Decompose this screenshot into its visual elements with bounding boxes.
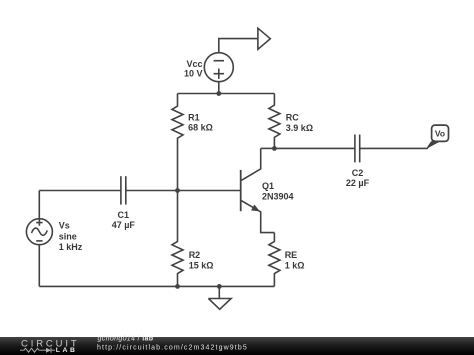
resistor RE	[269, 233, 280, 287]
svg-text:Vs: Vs	[59, 221, 70, 231]
transistor Q1 base bar	[240, 170, 242, 211]
svg-text:http://circuitlab.com/c2m342tg: http://circuitlab.com/c2m342tgw9tb5	[97, 345, 248, 352]
svg-text:68 kΩ: 68 kΩ	[188, 123, 213, 133]
svg-text:C1: C1	[118, 210, 130, 220]
junction node RC/collector/C2	[272, 146, 277, 151]
transistor Q1 emitter lead	[241, 201, 274, 233]
svg-text:sine: sine	[59, 231, 77, 241]
wire bottom rail	[39, 285, 274, 287]
junction node ground/bottom rail	[217, 284, 222, 289]
voltage source Vcc 10 V	[204, 53, 233, 82]
wire input rail left of C1	[39, 190, 121, 192]
net flag Vo box	[432, 125, 449, 141]
label R2 value	[189, 250, 214, 271]
svg-text:R1: R1	[188, 113, 200, 123]
svg-text:15 kΩ: 15 kΩ	[189, 261, 214, 271]
wire C1 to base	[126, 190, 241, 192]
svg-text:3.9 kΩ: 3.9 kΩ	[286, 123, 313, 133]
junction node R2/bottom rail	[175, 284, 180, 289]
transistor Q1 emitter arrow	[251, 205, 260, 212]
wire left column with Vs	[38, 191, 40, 287]
svg-text:RE: RE	[285, 250, 298, 260]
label Vs value	[59, 221, 83, 252]
wire top rail	[178, 93, 275, 95]
svg-text:LAB: LAB	[56, 347, 78, 354]
ground	[208, 286, 231, 309]
junction node Vcc/R1/RC	[216, 91, 221, 96]
svg-text:2N3904: 2N3904	[262, 191, 294, 201]
label C1 value	[112, 210, 136, 230]
svg-text:Vcc: Vcc	[186, 59, 202, 69]
svg-text:RC: RC	[286, 113, 299, 123]
label C2 value	[346, 168, 370, 188]
footer logo diode triangle	[46, 348, 51, 353]
svg-text:Q1: Q1	[262, 181, 274, 191]
footer bar	[0, 337, 474, 355]
resistor RC	[269, 94, 280, 149]
voltage source Vs sine	[26, 219, 52, 245]
svg-text:1 kΩ: 1 kΩ	[285, 261, 305, 271]
label RC value	[286, 113, 313, 133]
junction node C1/R1/R2/base	[175, 188, 180, 193]
label Q1 value	[262, 181, 294, 201]
svg-text:gchong014 / lab: gchong014 / lab	[98, 336, 154, 343]
capacitor C1	[121, 176, 126, 204]
resistor R2	[172, 191, 183, 287]
transistor Q1 collector lead	[241, 148, 260, 180]
net flag Vo pointer	[427, 140, 439, 149]
svg-text:1 kHz: 1 kHz	[59, 242, 83, 252]
capacitor C2	[355, 135, 360, 163]
svg-text:Vo: Vo	[435, 129, 445, 139]
wire C2 to Vo	[360, 142, 432, 149]
svg-text:R2: R2	[189, 250, 201, 260]
label R1 value	[188, 113, 213, 133]
net flag VCC	[258, 28, 270, 49]
footer logo resistor-diode glyph	[20, 348, 55, 353]
svg-text:10 V: 10 V	[184, 68, 203, 78]
label RE value	[285, 250, 305, 271]
wire collector to C2	[274, 147, 355, 149]
resistor R1	[172, 94, 183, 191]
wire Vcc bottom stub	[218, 82, 220, 94]
svg-text:C2: C2	[352, 168, 364, 178]
label Vcc value	[184, 59, 203, 79]
svg-text:47 µF: 47 µF	[112, 220, 136, 230]
wire Vcc top to flag	[219, 39, 258, 53]
svg-text:22 µF: 22 µF	[346, 178, 370, 188]
wire collector node	[261, 147, 275, 149]
